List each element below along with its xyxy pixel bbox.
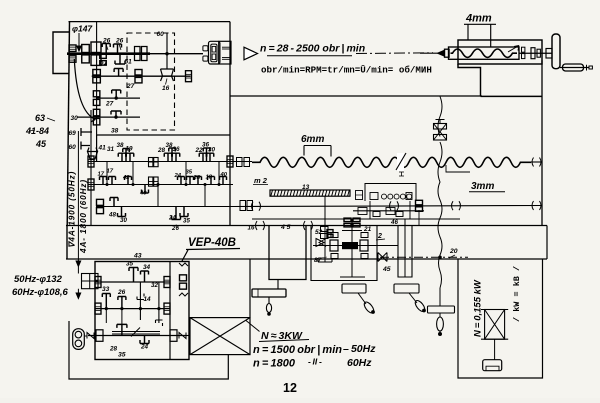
gear feed-III z35 [180,207,188,217]
VEP shift rail [112,331,160,333]
shaft VEP I [95,281,170,283]
motor M2 base [483,360,502,371]
bevel gear pair 16 [161,69,174,81]
worm VEP right wall [179,263,188,296]
motor M1 cross [190,318,250,355]
belt cone pulley block [82,274,99,289]
motor M2 cross [485,310,505,340]
saddle U2 shaft [404,219,406,277]
gear feed-II z42 at 128 [125,177,132,185]
gear on spindle z26 block [82,45,90,53]
wire underline VEP [186,249,240,250]
bearing VEP I left [95,277,101,288]
wire connector v3 [157,185,159,207]
wire connector v6 [218,162,220,185]
worm small gears above [331,233,338,238]
gear z30 on shaft IV [93,109,100,116]
svg-text:43: 43 [133,253,142,260]
bearing VEP I right [164,277,170,288]
VEP box [95,262,189,360]
svg-text:36: 36 [173,146,181,153]
svg-text:/ kW = kB /: / kW = kB / [512,266,522,322]
wire selector lower dashdot [126,33,128,130]
gear VEP-II z26 [118,297,126,309]
svg-text:24: 24 [168,215,176,222]
svg-text:obr/min=RPM=tr/mn=Ū/min= об/МИ: obr/min=RPM=tr/mn=Ū/min= об/МИН [261,65,432,76]
wire 26a leader [106,44,108,50]
worm side gear right [360,240,368,251]
gear feed-III z24 [172,207,181,220]
shaft III headstock [96,97,140,99]
clutch on pinion shaft [321,227,329,232]
svg-text:35: 35 [118,352,126,359]
gear z38 on shaft IV [111,111,121,117]
crank handle tailstock [560,67,589,69]
saddle plate line [252,218,460,220]
bearing block feed I [149,158,153,167]
saddle base plate left [252,289,286,297]
svg-text:- II -: - II - [308,357,322,367]
svg-text:∇4А-1900 (50Hz): ∇4А-1900 (50Hz) [68,171,77,248]
wall break feed rod d [532,201,534,210]
vertical broken line cross slide [438,97,442,307]
right apron box [458,259,543,378]
pin handle below left base [268,297,270,304]
svg-text:φ147: φ147 [72,24,93,34]
svg-text:60Hz-φ108,6: 60Hz-φ108,6 [12,287,69,298]
wall break feed rod b [390,201,392,210]
svg-text:m 2: m 2 [254,176,268,185]
svg-text:12: 12 [283,381,297,395]
wire M2 stem [494,339,496,360]
wire 3mm pointer [446,165,470,172]
feed rod [233,206,542,207]
svg-text:60: 60 [69,144,77,151]
gear feed-II z24 at 181 [178,177,185,185]
wall break feed rod a [252,202,254,211]
clutch on spindle [135,47,141,61]
gear feed-I z38 a [123,149,130,162]
junction III [115,96,118,99]
wire machine outer contour headstock box top [69,21,231,23]
svg-text:50Hz-φ132: 50Hz-φ132 [14,274,63,285]
wire left column line A [77,131,79,259]
gear VEP-III z24 [140,336,149,344]
handwheel tailstock [552,34,560,69]
svg-text:n = 1500 obr | min: n = 1500 obr | min [253,344,342,356]
wire connector v2 [132,162,134,185]
cross slide nut bar [428,306,455,313]
bearing feed I left [88,156,94,167]
svg-text:38: 38 [166,142,174,149]
leadscrew wave [252,157,531,167]
wire 4mm underline [464,23,496,25]
gear feed-I z36 [172,153,180,161]
gear VEP-I z34 [141,271,149,282]
svg-text:26: 26 [117,289,126,296]
wire 4mm bracket right [490,24,492,47]
gear VEP-III z28 [117,324,127,335]
wire VEP pointer [182,250,188,261]
svg-text:20: 20 [449,248,458,255]
tailstock screw pitch arrow [508,46,519,53]
wire belt line down with arrow [76,259,81,299]
coupling N right VEP [170,330,177,342]
worm small gears below [331,254,338,259]
svg-text:VEP-40B: VEP-40B [188,237,236,249]
wire leadscrew stub [233,161,252,163]
apron top bar [342,230,362,232]
wire 26b leader [119,44,121,50]
wire leader 63 [29,118,55,131]
crank handle right [409,293,417,303]
bearing VEP II right [164,303,170,314]
svg-text:45: 45 [382,266,391,273]
svg-text:21: 21 [363,226,372,233]
worm shaft [313,245,398,247]
svg-text:24: 24 [174,173,182,179]
crank handle apron [358,293,366,304]
saddle base plate right [394,284,419,293]
gear small left of casing [356,191,363,200]
wire connector v1 [106,162,108,185]
wire headstock left wall [67,22,69,226]
svg-text:31: 31 [107,146,115,153]
bearing shaft II right [186,71,192,82]
svg-text:48: 48 [108,212,116,219]
gear 13 rack pinion stem [324,196,326,262]
wire 16 leader [166,79,168,85]
wire underline n=28-2500 [267,55,352,57]
svg-text:N = 0,155 kW: N = 0,155 kW [473,279,484,337]
junction feed-II x186 [185,183,188,186]
wire connector v4 [185,162,187,185]
tailstock base step [458,64,542,96]
feed rod lower rail [353,210,424,212]
gear cluster on feed rod c [416,200,423,205]
junction feed-II x158 [157,183,160,186]
lower rail small gears [373,212,380,217]
svg-text:35: 35 [186,170,193,176]
svg-text:38: 38 [117,142,125,149]
wire 3mm underline [469,191,505,193]
feed rod coupling [240,201,246,211]
svg-text:16: 16 [162,85,170,92]
wire pulley to N [84,335,87,337]
gear feed-I z30 [206,153,214,161]
gear z51 b below spindle [115,54,125,64]
apron box [311,226,377,281]
chuck jaw dashes [222,46,230,48]
wire to motor [186,335,190,337]
wire headstock inner left wall [96,22,98,135]
gear feed-II z17 at 112 [109,177,116,185]
apron flange bottom [340,276,365,278]
apron small gears upper [327,230,333,233]
gear feed-I z19 [126,153,134,161]
svg-text:28: 28 [109,346,118,353]
saddle box U1 stem [277,280,279,290]
wire VEP 32 vertical [158,282,160,323]
svg-text:38: 38 [111,128,119,135]
junction 60-spindle [165,52,168,55]
svg-text:52: 52 [315,229,323,236]
svg-text:27: 27 [126,83,135,90]
gear feed-III z30 [118,207,126,217]
wire headstock left notch [53,32,69,74]
apron upper casing box [365,184,416,202]
coupling N left VEP [87,333,94,339]
tailstock casing [458,40,542,64]
dash-dot cross slide screw [380,256,468,258]
gear feed-I z28 [164,153,172,161]
wire centerline dash-dot [356,52,433,55]
bearing VEP II left [95,303,101,314]
svg-text:40: 40 [139,191,147,197]
gear z26 upper b [114,44,122,54]
gear VEP-II z33 [102,294,110,309]
bearing feed II left [88,179,94,190]
wire carriage band bottom line [66,258,547,260]
wire bed top line [230,95,482,97]
shaft selector vertical [166,34,168,70]
gear feed-II z18 at 211 [208,177,215,185]
gear feed-II z40 at 145 [142,185,149,194]
wall break feed rod c [452,201,454,210]
svg-text:63: 63 [35,113,45,123]
saddle box U1 [269,226,306,280]
svg-text:36: 36 [202,142,210,149]
wall break band a [256,221,258,230]
svg-text:32: 32 [151,282,158,289]
bearing block feed II [149,177,153,186]
shaft feed II [88,184,233,186]
chuck faceplate [219,41,231,64]
svg-text:4mm: 4mm [465,13,492,25]
wire 6mm bracket [304,146,331,157]
chuck inner [211,44,217,62]
wire carriage band top line [66,225,547,227]
gear left wall c [81,128,92,150]
apron base plate [342,284,366,293]
shaft spindle [67,52,150,55]
svg-text:18: 18 [206,175,213,181]
needle roller row [382,194,387,199]
wire 20 leader [449,255,455,258]
apron vertical shaft [351,219,353,277]
wire headstock bottom edge [97,134,230,136]
svg-text:24: 24 [140,344,149,351]
junction feed-II x107 [106,183,109,186]
tailstock screw shaft to handwheel [519,52,552,54]
wire bottom-left machine outline [69,321,228,379]
svg-text:14: 14 [144,296,152,303]
svg-text:26: 26 [171,225,179,232]
wire VEP 14 vertical [139,282,141,320]
svg-text:60: 60 [157,31,165,38]
bevel pair apron [316,239,326,247]
wire band to motor right [249,259,251,318]
gear cluster on feed rod b [386,208,395,215]
wire connector v5 [204,185,206,207]
tailstock shaft clamp [531,48,535,59]
shaft VEP II [95,308,170,310]
motor M2 box [485,310,505,340]
svg-text:17: 17 [98,172,105,178]
gear feed-II z17 at 103 [100,177,107,185]
gear cluster on feed rod a [358,208,367,215]
VEP inner wall [169,262,171,360]
motor M2 flanges [481,309,508,311]
svg-text:35: 35 [126,261,134,268]
tailstock dead centre [438,50,445,56]
chuck body [209,41,220,64]
shaft feed III [96,206,233,208]
svg-text:28: 28 [193,175,201,181]
wire vertical headstock to feed I [96,135,98,162]
svg-text:35: 35 [183,218,190,225]
chuck bearing blocks [203,46,208,51]
junction feed-II x133 [132,183,135,186]
gear z51 a below spindle [100,54,107,59]
svg-text:46: 46 [390,219,398,226]
svg-text:33: 33 [102,286,110,293]
wire phi147 arrow to spindle [77,33,81,51]
gear feed-III a [97,199,104,205]
svg-text:87: 87 [314,257,322,264]
gear 13 pinion [318,258,332,262]
wire headstock right wall [229,22,231,225]
motor M1 box [190,318,250,355]
gear z27 a [112,90,121,98]
svg-text:69: 69 [69,130,77,137]
svg-text:45: 45 [35,139,47,149]
motor pulley capsule [73,329,85,350]
gear feed-II z40 at 223 [220,177,227,185]
svg-text:4 5: 4 5 [280,224,291,231]
bearing feed I right [227,156,233,167]
gear feed-I z36 c [203,148,210,162]
svg-text:41-84: 41-84 [25,126,49,136]
wall break leadscrew right [532,158,534,167]
gear mid shaft II [135,70,142,76]
svg-text:4А- 1800 (60Hz): 4А- 1800 (60Hz) [79,179,88,254]
clutch feed output [237,158,243,167]
wire 26 down [121,309,123,325]
svg-text:n = 28 - 2500 obr | min: n = 28 - 2500 obr | min [260,43,365,55]
tailstock clamp marks [522,47,525,52]
shaft feed I [88,161,233,163]
wire N=3KW pointer [246,321,260,332]
svg-text:41: 41 [98,145,107,152]
gear feed-I z22 [199,153,207,161]
svg-text:n = 1800: n = 1800 [253,358,296,370]
gear left col on shaft II [93,70,101,76]
wall break band b [304,221,306,230]
selector dash-dot frame [127,33,175,130]
wire left column line B [90,110,92,226]
junction feed-II x219 [218,183,221,186]
gear pair right shaft III [93,91,100,97]
svg-text:27: 27 [105,101,114,108]
svg-text:16: 16 [248,225,255,232]
bearing spindle left [69,45,76,52]
rack m2 [270,190,350,196]
belt arc from motor to spindle [74,59,95,122]
junction IV [114,115,117,118]
svg-text:13: 13 [302,184,310,191]
gear VEP-I z35 [129,268,138,283]
svg-text:28: 28 [157,147,166,154]
worm side gear left [330,240,338,251]
apron top gears [344,218,351,222]
wire carriage band left edge [66,226,68,260]
gear feed-II z28 at 198 [195,177,202,185]
wire bed right edge [541,60,543,225]
svg-text:– 50Hz: – 50Hz [343,343,376,355]
svg-text:40: 40 [220,172,228,178]
clutch X apron [378,253,387,262]
gear feed-II z35 at 190 [187,177,194,185]
wire needle box hangers [369,201,371,219]
wire 26 leader [176,225,178,229]
wire 33 down [105,309,107,323]
gear feed-I z38 b [169,148,176,162]
worm black [342,242,358,249]
gear on spindle z26 block 2 [91,42,101,53]
shaft VEP III [88,335,186,337]
shaft II headstock [92,75,191,77]
wire 4mm bracket left [467,24,469,40]
arrow spindle output [244,47,258,60]
tailstock screw wave [451,49,518,57]
svg-text:6mm: 6mm [301,134,324,145]
tailstock quill box [449,47,520,59]
wire underline N=3KW [259,340,309,342]
junction feed-II x205 [204,183,207,186]
svg-text:42: 42 [122,175,130,181]
wire apron hanger b [418,210,420,226]
gear z26 upper a [102,44,110,54]
saddle box U2 [398,226,412,278]
clamp icon on vertical line [434,124,447,130]
svg-text:34: 34 [143,264,151,271]
wire leadscrew right end [531,161,542,163]
svg-text:3mm: 3mm [471,181,494,192]
gear feed-I z31 [118,153,126,161]
svg-text:30: 30 [120,217,127,224]
bevel pair 41 [88,148,98,160]
shaft IV headstock [77,116,140,118]
wire carriage band right edge [546,226,548,260]
gear feed-III z48 [110,198,118,207]
gear z51-II on shaft II [114,69,123,77]
junction cross-slide [438,255,442,259]
crank handle cross slide [439,313,441,317]
handwheel hub [546,49,552,59]
leadscrew break slash [397,153,404,171]
svg-text:30: 30 [71,115,79,122]
svg-text:60Hz: 60Hz [347,357,372,369]
svg-text:17: 17 [107,169,114,175]
svg-text:2: 2 [377,233,382,240]
